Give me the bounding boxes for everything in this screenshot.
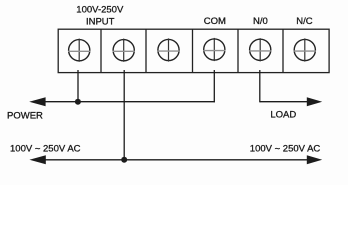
- arrowhead AC right: [307, 155, 322, 164]
- wire terminal2 to AC line: [123, 70, 125, 160]
- screw terminal 5 (N/0): [249, 38, 271, 61]
- terminal block body: [58, 29, 329, 72]
- terminal divider 3-4: [192, 29, 194, 72]
- svg-text:COM: COM: [204, 16, 226, 27]
- screw terminal 3: [157, 38, 179, 61]
- svg-text:100V-250V: 100V-250V: [76, 5, 124, 16]
- AC supply line (horizontal): [41, 159, 310, 161]
- screw terminal 2: [113, 39, 135, 62]
- load line (horizontal): [260, 101, 310, 103]
- wire terminal1 to power line: [77, 70, 79, 102]
- svg-text:100V ~ 250V AC: 100V ~ 250V AC: [10, 143, 81, 154]
- terminal divider 1-2: [100, 29, 102, 72]
- wire N/0 terminal to load line: [259, 70, 261, 102]
- wire COM terminal to power line: [213, 70, 215, 102]
- svg-text:INPUT: INPUT: [86, 17, 115, 28]
- svg-text:N/0: N/0: [253, 16, 268, 27]
- arrowhead to LOAD: [307, 97, 322, 106]
- junction dot terminal2/AC: [121, 157, 127, 163]
- terminal divider 5-6: [282, 29, 284, 72]
- terminal divider 4-5: [237, 29, 239, 72]
- screw terminal 6 (N/C): [294, 38, 316, 61]
- svg-text:N/C: N/C: [296, 16, 313, 27]
- terminal divider 2-3: [145, 29, 147, 72]
- screw terminal 1: [68, 39, 90, 62]
- junction dot terminal1/power: [75, 99, 81, 105]
- arrowhead to POWER: [29, 97, 45, 106]
- svg-text:LOAD: LOAD: [270, 110, 296, 121]
- svg-text:100V ~ 250V AC: 100V ~ 250V AC: [250, 143, 321, 154]
- arrowhead AC left: [29, 155, 45, 164]
- power line (horizontal): [41, 101, 215, 103]
- screw terminal 4 (COM): [203, 38, 225, 61]
- svg-text:POWER: POWER: [7, 110, 43, 121]
